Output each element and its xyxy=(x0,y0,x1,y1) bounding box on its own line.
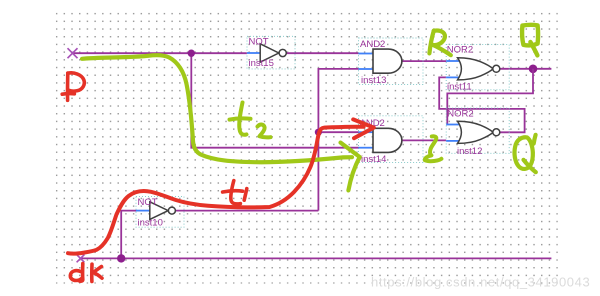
wire clk branch up to inst10 input xyxy=(121,211,136,259)
nor-gate U inst12 xyxy=(446,108,509,157)
annotation red clk-to-inst14 trace with arrow xyxy=(68,119,374,253)
annotation green label Q xyxy=(522,25,538,56)
inverter U inst10 xyxy=(136,197,184,229)
node junction on riser xyxy=(315,129,322,136)
nor-gate U inst11 xyxy=(446,44,509,92)
wire inst11 output Q xyxy=(500,68,552,70)
node D input pin X marker xyxy=(68,48,78,58)
annotation green label S xyxy=(425,136,442,161)
wire clk horizontal xyxy=(81,257,552,259)
inverter U inst15 xyxy=(247,36,295,69)
svg-text:inst10: inst10 xyxy=(138,218,163,229)
wire Q' feedback from inst12 output to inst11 bottom input xyxy=(439,77,524,132)
wire D input horizontal xyxy=(73,52,248,54)
and-gate U inst13 xyxy=(359,38,424,86)
node clk input pin X marker xyxy=(77,255,85,263)
wire Q feedback to inst12 top input xyxy=(447,69,533,125)
svg-text:inst14: inst14 xyxy=(361,154,386,165)
wire inst15 output to inst13 top input xyxy=(286,52,358,54)
wire inst14 output to inst12 bottom input xyxy=(402,139,446,141)
wire inst13 output to inst11 top input xyxy=(402,60,446,62)
annotation green label R xyxy=(429,31,450,56)
svg-text:inst13: inst13 xyxy=(361,75,386,86)
wire riser up to inst13 bottom input xyxy=(318,69,358,211)
svg-text:inst15: inst15 xyxy=(249,58,274,69)
wire riser branch to inst14 top input xyxy=(318,131,358,133)
svg-text:inst11: inst11 xyxy=(447,81,472,92)
annotation red label D xyxy=(62,73,84,100)
svg-text:AND2: AND2 xyxy=(360,39,385,50)
svg-text:https://blog.csdn.net/qq_34190: https://blog.csdn.net/qq_34190043 xyxy=(371,275,590,290)
svg-text:NOT: NOT xyxy=(138,197,158,208)
annotation green label t2 xyxy=(230,103,271,138)
svg-text:inst12: inst12 xyxy=(457,146,482,157)
annotation red label clk xyxy=(70,264,102,282)
and-gate U inst14 xyxy=(359,116,424,165)
wire D branch down to inst14 bottom input xyxy=(191,53,358,148)
wire inst10 output to riser xyxy=(175,210,319,212)
node junction on D wire xyxy=(188,50,195,57)
node junction on clk wire xyxy=(117,254,125,262)
annotation red label t1 xyxy=(223,181,247,204)
annotation green label Q' xyxy=(515,135,536,172)
node junction on Q output xyxy=(529,65,538,74)
annotation green t2 signal trace with arrow xyxy=(82,55,360,190)
svg-text:NOT: NOT xyxy=(249,36,269,47)
svg-text:NOR2: NOR2 xyxy=(447,109,473,120)
